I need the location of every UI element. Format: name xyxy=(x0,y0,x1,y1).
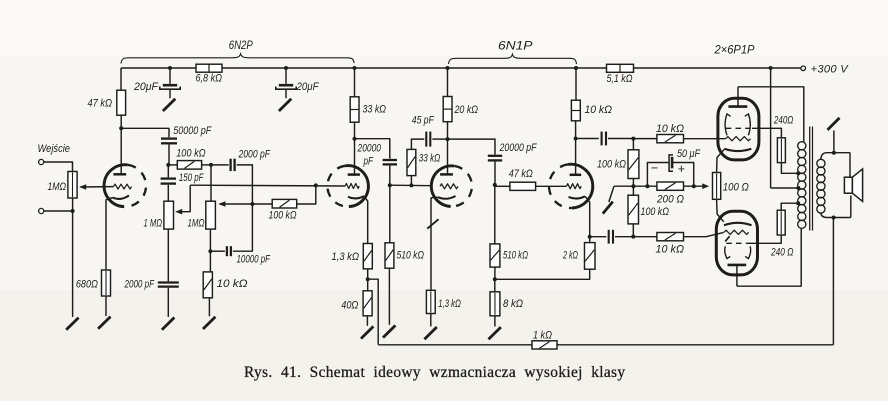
node B+ junction xyxy=(769,66,773,70)
node L lower grid node xyxy=(631,235,635,239)
node I divider mid xyxy=(631,184,635,188)
svg-text:100 kΩ: 100 kΩ xyxy=(176,148,206,160)
resistor 10kOhm upper grid xyxy=(633,123,684,143)
svg-text:10 kΩ: 10 kΩ xyxy=(656,123,684,135)
resistor 240Ohm screen upper xyxy=(752,115,793,163)
svg-text:+: + xyxy=(678,162,685,176)
svg-text:2 kΩ: 2 kΩ xyxy=(562,250,578,262)
wire B+ to primary center xyxy=(771,187,799,189)
wire plate3 to cap2 xyxy=(448,139,496,154)
svg-text:150 pF: 150 pF xyxy=(179,172,204,184)
capacitor 10000pF xyxy=(210,246,270,265)
transformer secondary winding xyxy=(817,159,825,213)
triode V1a cathode lead xyxy=(106,198,113,270)
resistor 47kOhm grid stopper xyxy=(495,168,536,190)
svg-text:10 kΩ: 10 kΩ xyxy=(217,278,248,290)
node grid4 xyxy=(493,183,497,187)
node plate2 xyxy=(353,137,357,141)
node primary tap1 xyxy=(796,171,800,175)
svg-text:−: − xyxy=(651,161,658,175)
wire cap to node A xyxy=(168,145,170,165)
resistor 200Ohm bias xyxy=(633,182,684,206)
node F cathode2 junction xyxy=(366,277,370,281)
transformer primary winding xyxy=(798,142,806,229)
wire feedback bottom run right xyxy=(557,344,833,346)
node B xyxy=(209,163,213,167)
wire R33k to plate2 node xyxy=(354,122,356,139)
svg-text:240 Ω: 240 Ω xyxy=(770,247,793,259)
node primary tap2 xyxy=(796,201,800,205)
triode V1a plate lead xyxy=(120,128,122,174)
wire tone2 wiper arrow xyxy=(218,201,252,207)
svg-text:2000 pF: 2000 pF xyxy=(124,279,155,291)
pentode V4 grid tick xyxy=(725,236,729,241)
node J 200ohm left xyxy=(645,184,649,188)
triode V2b cathode xyxy=(569,196,586,198)
capacitor 20000pF coupling b xyxy=(488,142,537,160)
pentode V4 beam electrodes xyxy=(725,246,751,258)
wire 1.3k to node F xyxy=(367,269,369,279)
wire plate4 out xyxy=(576,138,599,140)
pentode V3 envelope xyxy=(718,98,759,160)
svg-text:50 μF: 50 μF xyxy=(677,148,700,160)
triode V1b cathode xyxy=(348,196,364,198)
capacitor 20000pF coupling a xyxy=(357,142,397,167)
svg-text:100 kΩ: 100 kΩ xyxy=(269,210,297,222)
capacitor coupling lower xyxy=(609,230,613,244)
svg-text:47 kΩ: 47 kΩ xyxy=(88,98,113,110)
wire 100k4 to node L xyxy=(632,224,634,237)
node A xyxy=(166,163,170,167)
wire 47k2 to tube4 xyxy=(536,185,567,187)
resistor 100kOhm tone h1 xyxy=(168,148,205,170)
wire plate2 to cap xyxy=(355,139,390,159)
wire 200ohm to arrow xyxy=(684,183,710,189)
ground secondary xyxy=(828,118,840,130)
svg-text:20000: 20000 xyxy=(357,142,381,154)
svg-text:47 kΩ: 47 kΩ xyxy=(509,168,533,180)
node input terminal gnd xyxy=(39,208,44,213)
wire 680 to ground xyxy=(105,296,107,316)
wire 2000pF bottom to gnd xyxy=(167,288,169,317)
wire secondary bottom xyxy=(821,213,851,218)
capacitor 20uF rail bypass 2 xyxy=(276,66,319,98)
svg-text:100 kΩ: 100 kΩ xyxy=(641,206,670,218)
capacitor 2000pF tone top xyxy=(211,149,270,172)
capacitor 20uF rail bypass 1 xyxy=(133,66,180,98)
svg-text:510 kΩ: 510 kΩ xyxy=(503,250,528,262)
wire 510k2 to node G xyxy=(494,267,496,279)
resistor 10kOhm lower grid xyxy=(633,233,684,256)
wire pot bottom to gnd column xyxy=(72,198,74,211)
capacitor 2000pF cathode bottom xyxy=(124,229,179,290)
resistor 2kOhm cathode4 xyxy=(562,243,595,270)
capacitor 50000pF coupling xyxy=(161,125,213,143)
node H upper grid node xyxy=(631,137,635,141)
pentode V4 cathode xyxy=(724,223,752,225)
wire R20k to plate3 node xyxy=(447,122,449,139)
resistor 100kOhm divider lower xyxy=(628,186,669,224)
wire 10k4 to lower tube grid xyxy=(684,232,724,236)
svg-text:6N2P: 6N2P xyxy=(229,39,253,52)
wire cap to node L xyxy=(615,236,633,238)
svg-text:100 kΩ: 100 kΩ xyxy=(597,159,626,171)
pentode V4 cathode lead xyxy=(717,199,724,222)
resistor 8kOhm tail xyxy=(490,279,523,316)
node grid3 b xyxy=(409,183,413,187)
pentode V3 control grid zigzag xyxy=(726,137,751,141)
ground 8k xyxy=(489,327,501,339)
label 6N1P xyxy=(498,40,533,53)
resistor 33kOhm anode stage2 xyxy=(350,97,386,122)
ground below 20uF 2 xyxy=(279,99,291,111)
resistor 100kOhm tone h2 xyxy=(252,199,296,221)
wire B+ rail segment 2 xyxy=(222,67,607,69)
wire feedback down xyxy=(368,279,379,345)
svg-text:6N1P: 6N1P xyxy=(498,40,533,53)
wire speaker bottom xyxy=(850,196,852,218)
label 6N2P xyxy=(229,39,253,52)
wire cathode4 to cap xyxy=(590,236,607,238)
wire rail to R10k xyxy=(574,66,578,100)
capacitor 150pF xyxy=(161,165,204,184)
resistor 240Ohm screen lower xyxy=(746,210,793,258)
svg-text:5,1 kΩ: 5,1 kΩ xyxy=(607,73,633,85)
node E xyxy=(208,249,212,253)
svg-text:pF: pF xyxy=(363,155,374,167)
wire 240b to tap2 xyxy=(781,203,798,210)
wire node G to 2k bottom xyxy=(495,269,590,279)
resistor 40Ohm feedback leg xyxy=(341,279,372,316)
resistor 680Ohm cathode1 xyxy=(76,270,111,296)
potentiometer 1MOhm tone1 xyxy=(144,201,174,229)
svg-text:20 kΩ: 20 kΩ xyxy=(454,104,478,116)
wire 2000pF to node C xyxy=(237,165,253,204)
ground below 20uF 1 xyxy=(163,99,175,111)
ground 40ohm xyxy=(361,326,373,338)
potentiometer 1MOhm tone2 xyxy=(188,201,216,229)
ground input column xyxy=(66,318,78,330)
wire B+ rail segment 3 xyxy=(634,67,802,69)
svg-text:1 MΩ: 1 MΩ xyxy=(144,218,163,230)
wire 10k tone to gnd xyxy=(208,298,210,316)
wire 10000pF to node C xyxy=(233,204,253,251)
wire R10k to plate4 node xyxy=(575,121,577,139)
resistor 510kOhm grid4 xyxy=(490,185,528,267)
triode V1b plate bar xyxy=(348,173,360,176)
svg-text:20μF: 20μF xyxy=(133,81,159,93)
svg-text:680Ω: 680Ω xyxy=(76,279,98,291)
resistor 510kOhm grid3 xyxy=(385,185,424,268)
potentiometer 1MOhm volume xyxy=(48,172,78,199)
label Wejscie xyxy=(38,143,71,155)
wire feedback bottom run xyxy=(378,344,532,346)
svg-text:45 pF: 45 pF xyxy=(412,115,434,127)
node D xyxy=(314,183,318,187)
triode V2a envelope xyxy=(431,166,472,207)
node K 200ohm right xyxy=(692,184,696,188)
pentode V3 plate lead xyxy=(737,87,739,107)
triode V2b plate bar xyxy=(570,174,582,177)
wire secondary top to speaker xyxy=(849,153,851,178)
brace 6N1P group xyxy=(449,54,577,64)
triode V2b plate lead xyxy=(575,139,577,175)
wire tube2 grid line xyxy=(190,184,345,187)
wire plate1 to coupling cap xyxy=(121,128,169,137)
wire 510k to gnd xyxy=(388,268,390,325)
svg-text:Wejście: Wejście xyxy=(38,143,71,155)
svg-text:20000 pF: 20000 pF xyxy=(499,142,537,154)
capacitor 50uF bypass xyxy=(647,148,700,186)
resistor 47kOhm anode stage1 xyxy=(88,90,126,115)
speaker xyxy=(844,169,862,202)
triode V2a cathode xyxy=(438,196,456,199)
wire plate bottom link xyxy=(737,228,801,286)
node input terminal hot xyxy=(39,159,44,164)
node plate3 xyxy=(446,137,450,141)
wire rail to R33k xyxy=(353,66,357,97)
node grid3 xyxy=(388,183,392,187)
svg-text:33 kΩ: 33 kΩ xyxy=(363,104,387,116)
node cathode4 coupling xyxy=(588,235,592,239)
wire cap2 to grid4 node xyxy=(494,162,496,185)
resistor 1kOhm feedback xyxy=(532,330,557,350)
capacitor 45pF xyxy=(412,115,434,147)
svg-text:50000 pF: 50000 pF xyxy=(173,125,212,137)
triode V1a grid zigzag xyxy=(114,184,132,189)
pentode V4 plate lead xyxy=(736,265,738,286)
resistor 6.8kOhm rail filter xyxy=(196,64,223,84)
wire input to volume pot xyxy=(44,162,73,172)
triode V1b grid zigzag xyxy=(345,184,359,189)
svg-text:1MΩ: 1MΩ xyxy=(48,181,67,193)
resistor 10kOhm tone xyxy=(203,251,247,298)
pentode V4 screen grid dashed xyxy=(726,242,746,244)
wire 1.3k2 to gnd xyxy=(430,314,432,327)
triode V2b envelope xyxy=(549,164,593,208)
pentode V4 control grid zigzag xyxy=(724,230,749,234)
ground 680 xyxy=(98,317,110,329)
svg-text:200 Ω: 200 Ω xyxy=(656,194,684,206)
caption xyxy=(244,364,625,381)
wire cap to grid3 node xyxy=(389,166,391,186)
pentode V3 cathode xyxy=(724,149,751,151)
node C xyxy=(250,202,254,206)
wire wiper arrow to tube1 grid xyxy=(79,184,113,190)
wire plate top link xyxy=(738,87,804,143)
resistor 1.3kOhm cathode2 xyxy=(332,244,373,269)
wire rail to R20k xyxy=(446,66,450,97)
svg-text:1MΩ: 1MΩ xyxy=(188,218,205,230)
svg-text:33 kΩ: 33 kΩ xyxy=(419,153,441,165)
pentode V4 plate bar xyxy=(728,264,747,267)
wire cap to node H xyxy=(608,138,633,140)
resistor 10kOhm anode stage4 xyxy=(571,100,612,121)
triode V2b grid zigzag xyxy=(567,184,582,189)
triode V1b cathode lead xyxy=(364,196,368,243)
wire pot2 to node E xyxy=(209,229,211,251)
wire node B to pot2 xyxy=(210,165,212,201)
wire B+ rail segment 1 xyxy=(121,67,196,69)
triode V2a cathode lead xyxy=(431,197,438,294)
wire secondary top xyxy=(821,153,850,160)
capacitor coupling upper xyxy=(602,132,606,146)
wire 10k3 to upper tube grid xyxy=(684,138,726,140)
svg-text:10 kΩ: 10 kΩ xyxy=(585,104,613,116)
svg-text:10000 pF: 10000 pF xyxy=(237,254,271,266)
ground 1.3k2 xyxy=(424,327,436,339)
tick on cathode3 wire xyxy=(427,219,438,228)
pentode V3 screen grid dashed xyxy=(726,127,752,129)
wire 45pF to plate3 node xyxy=(432,138,447,140)
wire R47k to plate node xyxy=(120,115,122,128)
svg-text:2000 pF: 2000 pF xyxy=(238,149,271,161)
wire 100k to node B xyxy=(202,164,211,166)
wire rail to R 47k xyxy=(120,68,122,90)
svg-text:+300 V: +300 V xyxy=(811,63,850,75)
pentode V3 cathode lead xyxy=(717,149,725,172)
svg-text:240Ω: 240Ω xyxy=(773,115,793,127)
wire grid3 line xyxy=(390,184,433,187)
potentiometer 100Ohm hum balance xyxy=(713,173,749,200)
wire 100k2 to node D xyxy=(297,185,316,204)
svg-text:100 Ω: 100 Ω xyxy=(723,181,749,193)
triode V1a plate bar xyxy=(113,173,126,176)
triode V1a cathode xyxy=(113,195,130,199)
svg-text:2×6P1P: 2×6P1P xyxy=(714,44,755,57)
svg-text:1 kΩ: 1 kΩ xyxy=(533,330,552,342)
wire feedback riser xyxy=(832,218,834,345)
resistor 1.3kOhm cathode3 xyxy=(426,290,460,313)
node plate1 junction xyxy=(119,126,123,130)
svg-text:1,3 kΩ: 1,3 kΩ xyxy=(438,298,461,310)
pentode V3 beam electrodes xyxy=(725,114,750,135)
triode V2a plate bar xyxy=(440,173,453,176)
triode V1a envelope xyxy=(104,165,146,207)
node G xyxy=(493,277,497,281)
resistor 5.1kOhm rail filter xyxy=(607,64,634,85)
resistor 100kOhm divider upper xyxy=(597,139,639,179)
svg-text:Rys. 41. Schemat ideowy wz: Rys. 41. Schemat ideowy wzmacniacza wyso… xyxy=(244,364,625,381)
node primary center tap xyxy=(796,186,800,190)
svg-text:510 kΩ: 510 kΩ xyxy=(397,250,425,262)
ground 2000pF bottom xyxy=(162,318,174,330)
triode V1b envelope xyxy=(327,166,368,207)
node secondary top junction xyxy=(832,151,836,155)
resistor 20kOhm anode stage3 xyxy=(443,97,478,122)
wire 240 to tap1 xyxy=(781,163,798,174)
triode V2a plate lead xyxy=(447,139,449,174)
node plate4 xyxy=(574,137,578,141)
ground 10k tone xyxy=(203,317,215,329)
wire 100k3 to node I xyxy=(632,179,634,187)
wire input gnd column xyxy=(72,211,74,317)
pentode V3 plate bar xyxy=(728,105,747,108)
wire node I to gnd xyxy=(609,186,634,202)
wire tone1 wiper riser xyxy=(175,185,190,214)
wire B+ down xyxy=(770,68,772,188)
svg-text:6,8 kΩ: 6,8 kΩ xyxy=(196,73,223,85)
ground 510k xyxy=(383,325,395,337)
transformer core xyxy=(810,127,813,231)
node secondary bottom junction xyxy=(832,216,836,220)
ground divider mid xyxy=(603,202,613,214)
svg-text:40Ω: 40Ω xyxy=(341,300,358,312)
label 2×6P1P xyxy=(714,44,755,57)
wire terminal2 to junction xyxy=(44,210,72,212)
wire 40ohm to gnd xyxy=(366,316,368,326)
triode V1b plate lead xyxy=(354,139,356,175)
svg-text:1,3 kΩ: 1,3 kΩ xyxy=(332,251,360,263)
triode V2a grid zigzag xyxy=(440,184,458,189)
node +300V terminal xyxy=(801,63,849,75)
wire 8k to gnd xyxy=(494,316,496,327)
wire 150pF to pot xyxy=(167,185,169,201)
node input ground junction xyxy=(71,209,75,213)
pentode V4 envelope xyxy=(716,211,757,275)
wire 33k2 top lead xyxy=(411,139,424,149)
svg-text:10 kΩ: 10 kΩ xyxy=(656,244,685,256)
resistor 33kOhm step network xyxy=(407,149,440,185)
svg-text:20μF: 20μF xyxy=(296,81,319,93)
brace 6N2P group xyxy=(121,54,354,64)
svg-text:8 kΩ: 8 kΩ xyxy=(503,298,523,310)
triode V2b cathode lead xyxy=(585,196,590,242)
wire secondary gnd riser xyxy=(833,131,835,153)
